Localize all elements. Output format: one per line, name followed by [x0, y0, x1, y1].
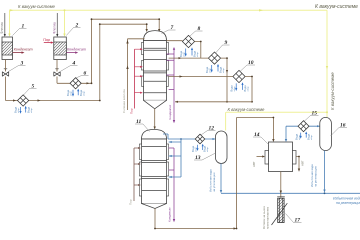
- pos label 9: [216, 40, 230, 53]
- wire condensate from column 7: [167, 47, 176, 123]
- heat exchanger 15: [295, 121, 314, 140]
- node condensate out of condenser 2: [67, 47, 86, 54]
- node label excess water to regeneration: [333, 197, 360, 206]
- svg-text:обор.: обор.: [210, 67, 212, 73]
- svg-text:обор.: обор.: [234, 86, 236, 92]
- wire separator 16 bottom water out: [310, 151, 326, 193]
- svg-text:обор.: обор.: [71, 90, 73, 96]
- svg-text:Конденсат: Конденсат: [67, 47, 86, 51]
- separator 13: [216, 131, 228, 164]
- separator 16: [320, 117, 332, 150]
- svg-text:Вода: Вода: [219, 66, 223, 73]
- svg-text:обор.: обор.: [84, 90, 86, 96]
- pos label 1: [13, 24, 27, 36]
- heat exchanger 12: [191, 134, 209, 152]
- heat exchanger 6: [66, 78, 86, 97]
- heat exchanger 10: [230, 70, 250, 91]
- wire reflux into column 11: [169, 138, 182, 178]
- svg-text:Вода: Вода: [205, 66, 209, 73]
- wire AVT feed into furnace 14: [252, 155, 265, 167]
- svg-text:обор.: обор.: [31, 107, 33, 113]
- filter 17: [262, 198, 287, 229]
- valve 4: [54, 69, 60, 76]
- svg-text:Вода: Вода: [179, 50, 183, 57]
- pos label 6: [76, 71, 89, 79]
- svg-text:Вода: Вода: [191, 145, 195, 152]
- svg-text:обор.: обор.: [196, 146, 198, 152]
- wire steam into condenser 2: [43, 38, 54, 44]
- pos label 14: [253, 132, 269, 145]
- svg-text:Соляная кислота: Соляная кислота: [122, 89, 126, 113]
- pos label 11: [135, 119, 150, 132]
- wire separator 13 bottom water out: [209, 164, 223, 194]
- wire furnace 14 outlet to AVT: [296, 156, 305, 172]
- svg-text:на регенерацию: на регенерацию: [314, 166, 318, 187]
- furnace 14: [265, 142, 296, 172]
- svg-text:Конденсат: Конденсат: [14, 47, 33, 51]
- svg-text:Вода: Вода: [243, 85, 247, 92]
- wire condenser 1 bottoms to column 7 top: [6, 23, 148, 101]
- svg-text:обор.: обор.: [18, 107, 20, 113]
- pos label 8: [190, 26, 203, 36]
- svg-text:обор.: обор.: [311, 134, 313, 140]
- condenser 1: [2, 37, 13, 60]
- wire column 7 bottoms to column 11: [154, 109, 156, 130]
- svg-text:Флегма: Флегма: [53, 22, 57, 34]
- wire feed into condenser 1: [0, 13, 6, 37]
- wire collect line to condensate: [175, 101, 252, 103]
- wire condenser 2 bottoms to column 7 top: [57, 18, 160, 84]
- wire column 11 bottoms to furnace 14: [154, 117, 275, 230]
- svg-text:Избыточная вода: Избыточная вода: [333, 197, 360, 201]
- pos label 2: [66, 23, 80, 36]
- svg-text:К вакуум-системе: К вакуум-системе: [315, 4, 358, 10]
- pos label 12: [201, 126, 216, 136]
- svg-text:обор.: обор.: [184, 51, 186, 57]
- pos label 17: [286, 214, 302, 224]
- wire column 7 overhead through exchanger 8: [167, 41, 202, 58]
- svg-text:Вода: Вода: [203, 145, 207, 152]
- wire feed into condenser 2: [53, 13, 59, 37]
- wire steam into column 11: [129, 147, 141, 205]
- wire column 7 side draw through exchanger 10: [169, 75, 253, 102]
- svg-text:К вакуум-системе: К вакуум-системе: [330, 72, 335, 110]
- column 7: [141, 31, 168, 109]
- wire feed into column 7: [122, 39, 145, 113]
- svg-text:обор.: обор.: [197, 51, 199, 57]
- pos label 5: [24, 84, 37, 96]
- svg-text:АВТ: АВТ: [252, 161, 256, 167]
- wire water line through exchanger 15: [286, 125, 320, 127]
- svg-text:Вода: Вода: [66, 89, 70, 96]
- wire column 11 overhead through exchanger 12 to separator 13: [163, 134, 216, 140]
- heat exchanger 9: [205, 52, 225, 73]
- svg-text:обор.: обор.: [248, 86, 250, 92]
- svg-text:К вакуум-системе: К вакуум-системе: [18, 4, 56, 9]
- wire furnace 14 residue to filter 17: [277, 172, 285, 198]
- svg-text:Вода: Вода: [295, 133, 299, 140]
- svg-text:Вода: Вода: [307, 133, 311, 140]
- wire steam into column 7: [130, 48, 143, 114]
- svg-text:на утилизацию: на утилизацию: [212, 173, 216, 192]
- wire condensate from column 11: [168, 148, 176, 222]
- pos label 10: [241, 60, 256, 71]
- pos label 7: [162, 25, 176, 34]
- node condensate out of condenser 1: [13, 47, 33, 54]
- heat exchanger 5: [14, 95, 34, 114]
- svg-text:Вода: Вода: [193, 50, 197, 57]
- pos label 13: [194, 153, 216, 161]
- column 11: [139, 129, 168, 208]
- pos label 3: [9, 61, 26, 72]
- svg-text:обор.: обор.: [299, 134, 301, 140]
- svg-text:Конденсат: Конденсат: [168, 104, 172, 119]
- pos label 15: [305, 111, 319, 122]
- svg-text:Пар: Пар: [129, 199, 133, 205]
- svg-text:Вода: Вода: [27, 106, 31, 113]
- heat exchanger 8: [179, 35, 199, 57]
- wire vacuum arrows: [8, 9, 328, 113]
- svg-text:Пар: Пар: [43, 38, 50, 42]
- wire vacuum header top: [10, 10, 328, 130]
- svg-text:К вакуум-системе: К вакуум-системе: [228, 107, 266, 112]
- valve 3: [2, 69, 8, 76]
- svg-text:Вода: Вода: [14, 106, 18, 113]
- pos label 16: [331, 123, 348, 137]
- condenser 2: [54, 37, 67, 60]
- svg-text:Вода: Вода: [230, 85, 234, 92]
- wire water into furnace 14: [285, 126, 287, 142]
- svg-text:АВТ: АВТ: [301, 160, 305, 166]
- svg-text:обор.: обор.: [207, 146, 209, 152]
- svg-text:Конденсат: Конденсат: [168, 207, 172, 222]
- svg-text:обор.: обор.: [223, 67, 225, 73]
- svg-text:транспортировку: транспортировку: [266, 206, 270, 229]
- svg-text:на регенерацию: на регенерацию: [336, 201, 360, 205]
- svg-text:Флегма: Флегма: [0, 22, 4, 34]
- wire excess water main (blue): [221, 192, 360, 194]
- pos label 4: [60, 61, 77, 72]
- wire column 7 side draw through exchanger 9: [169, 57, 229, 103]
- svg-text:Пар: Пар: [130, 108, 134, 114]
- svg-text:Вода: Вода: [79, 89, 83, 96]
